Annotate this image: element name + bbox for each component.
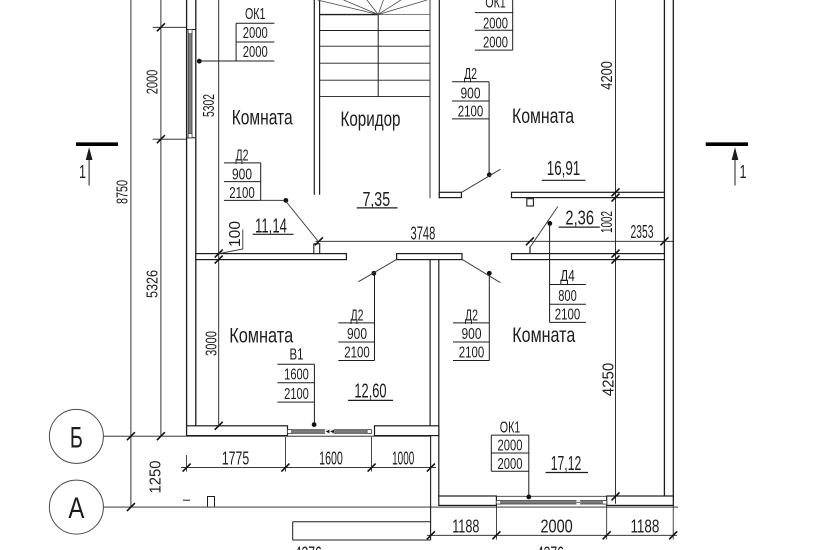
svg-text:2100: 2100 (284, 386, 309, 403)
svg-text:Комната: Комната (232, 107, 293, 130)
axis circle A (49, 480, 103, 534)
svg-text:5302: 5302 (201, 94, 218, 117)
small ledge line left of porch (183, 499, 190, 501)
svg-text:ОК1: ОК1 (485, 0, 506, 11)
stair fan lines (318, 0, 428, 15)
svg-text:5326: 5326 (145, 270, 162, 298)
svg-text:4376: 4376 (537, 544, 564, 550)
wall right outer (664, 0, 673, 505)
svg-text:1775: 1775 (222, 448, 249, 468)
svg-text:17,12: 17,12 (551, 453, 582, 475)
table D2 room 16.91 (452, 66, 489, 175)
svg-text:2,36: 2,36 (565, 208, 594, 230)
stair winder edge gray (378, 14, 430, 16)
stair winder edge dark (320, 14, 379, 16)
axis circle B (49, 409, 103, 463)
axis line A (103, 506, 678, 508)
area 16.91 (542, 158, 586, 180)
middle wall segment right (512, 254, 665, 260)
svg-text:8750: 8750 (115, 180, 132, 204)
closet wall stub (529, 247, 531, 254)
section mark right arrow (732, 147, 747, 185)
svg-text:Комната: Комната (512, 105, 574, 128)
svg-text:1000: 1000 (392, 448, 414, 468)
middle wall segment left (196, 254, 347, 260)
bottom wall left room block A (187, 426, 288, 436)
window V1 bottom left room (288, 429, 372, 433)
svg-text:900: 900 (347, 326, 367, 343)
svg-text:Комната: Комната (512, 324, 575, 347)
svg-text:1600: 1600 (319, 448, 343, 468)
svg-text:Д2: Д2 (236, 147, 249, 164)
svg-text:800: 800 (558, 288, 577, 305)
svg-text:Д2: Д2 (464, 66, 477, 83)
window OK1 left wall (187, 30, 196, 138)
svg-text:ОК1: ОК1 (245, 6, 266, 23)
bottom right room left wall lower line (438, 426, 440, 497)
svg-text:2100: 2100 (555, 307, 581, 324)
stair center line (377, 13, 379, 96)
dim line vertical 2000/5326 (160, 0, 162, 436)
svg-text:100: 100 (227, 221, 244, 247)
wall corridor right (438, 0, 440, 198)
middle wall segment center (397, 254, 462, 260)
leader and door leaf room 16.91 (462, 169, 501, 192)
dim line horizontal 1188/2000/1188 (427, 534, 677, 536)
svg-text:2000: 2000 (243, 25, 268, 42)
svg-text:2100: 2100 (458, 103, 484, 120)
area 2.36 (559, 208, 600, 230)
bottom wall right room block right (607, 496, 674, 505)
witness lines bottom dim row1 (187, 437, 372, 472)
svg-text:Комната: Комната (229, 325, 293, 348)
porch corner notch (208, 497, 215, 507)
svg-text:1250: 1250 (148, 460, 165, 493)
svg-text:900: 900 (462, 326, 482, 343)
svg-text:Б: Б (70, 422, 83, 455)
svg-text:1: 1 (740, 162, 747, 182)
dim small 100 annotation (220, 221, 245, 254)
svg-text:900: 900 (461, 85, 481, 102)
table D2 bottom-right room (453, 273, 489, 361)
table OK1 top-right (475, 0, 513, 51)
wall corridor left (314, 0, 319, 195)
dim line vertical 5302/100/3000 (218, 0, 220, 426)
svg-text:2353: 2353 (631, 222, 654, 242)
svg-text:В1: В1 (290, 347, 304, 364)
svg-text:Д2: Д2 (465, 307, 478, 324)
table OK1 bottom-right (491, 420, 531, 500)
svg-text:2000: 2000 (243, 44, 268, 61)
svg-text:1: 1 (79, 162, 86, 182)
dim line horizontal 1775/1600/1000 (181, 467, 436, 469)
leader and door leaf bottom-right room (462, 259, 500, 282)
svg-text:Д4: Д4 (560, 268, 575, 285)
area 11.14 (253, 215, 294, 237)
svg-text:1188: 1188 (630, 517, 659, 537)
svg-text:2100: 2100 (344, 345, 370, 362)
svg-text:А: А (68, 492, 84, 525)
wall room 16.91 bottom left stub (439, 192, 461, 197)
svg-text:4250: 4250 (601, 363, 618, 397)
area 7.35 (357, 189, 398, 211)
svg-text:1600: 1600 (284, 367, 309, 384)
wall corridor right inner gray line (429, 0, 431, 198)
svg-text:2000: 2000 (483, 15, 508, 32)
svg-text:ОК1: ОК1 (500, 420, 521, 437)
svg-text:16,91: 16,91 (547, 158, 581, 180)
wall room 16.91 bottom right segment (512, 192, 665, 197)
svg-text:1002: 1002 (599, 211, 616, 233)
wall between bottom rooms (430, 260, 439, 426)
section mark right bar (706, 142, 748, 146)
svg-text:3000: 3000 (204, 331, 221, 356)
area 12.60 (348, 381, 393, 403)
dim line vertical 4200/1002/4250 (615, 0, 617, 504)
section mark left bar (76, 142, 118, 146)
svg-text:2000: 2000 (483, 35, 508, 52)
svg-text:900: 900 (232, 166, 252, 183)
axis line B (103, 435, 431, 437)
table OK1 top-left (197, 6, 274, 64)
section mark left arrow (79, 147, 93, 185)
svg-text:4376: 4376 (295, 544, 322, 550)
leader and door leaf bottom-left room (358, 259, 397, 282)
bottom wall left room block B (375, 426, 439, 436)
svg-text:12,60: 12,60 (354, 381, 386, 403)
door jamb corridor left wall (314, 244, 320, 254)
dim line vertical 8750/1250 (130, 0, 132, 507)
area 17.12 (546, 453, 588, 475)
table D2 room 11.14 (224, 147, 261, 202)
svg-text:2000: 2000 (498, 438, 523, 455)
svg-text:1188: 1188 (452, 517, 479, 537)
table D2 bottom-left room (338, 273, 374, 361)
window OK1 bottom right room (496, 496, 606, 504)
svg-text:4200: 4200 (599, 61, 616, 90)
svg-text:2100: 2100 (459, 345, 485, 362)
stair treads (320, 31, 430, 97)
porch right edge line (430, 426, 432, 540)
svg-text:2000: 2000 (498, 456, 523, 473)
svg-text:Д2: Д2 (351, 307, 364, 324)
door jamb closet (527, 199, 534, 206)
dim line horizontal 3748/2353 (316, 240, 674, 242)
leader window OK1 left (198, 60, 200, 62)
svg-text:2100: 2100 (229, 185, 255, 202)
svg-text:3748: 3748 (411, 224, 436, 244)
porch steps (293, 522, 431, 540)
bottom wall right room block left (439, 496, 497, 505)
wall left outer (187, 0, 196, 436)
svg-text:2000: 2000 (541, 517, 573, 537)
dimension ticks (127, 23, 677, 539)
svg-text:2000: 2000 (145, 70, 162, 95)
leader and door leaf closet (529, 207, 558, 249)
witness lines window 2000 left (153, 27, 187, 139)
witness lines bottom dim row2 (496, 506, 673, 540)
svg-text:Коридор: Коридор (341, 108, 401, 131)
table D4 closet (550, 223, 586, 323)
table V1 window bottom-left (277, 347, 316, 427)
leader and door leaf room 11.14 (261, 198, 318, 241)
